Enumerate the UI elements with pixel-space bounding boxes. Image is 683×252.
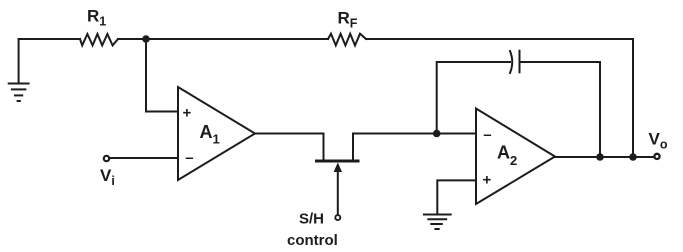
node A (junction dot after R1) — [142, 35, 150, 43]
transistor Q1 gate arrow — [334, 163, 342, 215]
terminal Vi — [104, 156, 109, 161]
wire node A to RF — [146, 38, 328, 40]
resistor RF — [328, 34, 366, 46]
resistor R1 — [80, 34, 118, 45]
svg-text:+: + — [483, 171, 492, 188]
wire RF to right corner — [366, 39, 633, 157]
svg-text:+: + — [183, 105, 192, 122]
wire ground to R1 — [19, 38, 80, 40]
op-amp U2 (A2) — [476, 109, 555, 205]
terminal Vo — [654, 154, 659, 159]
svg-text:–: – — [185, 149, 193, 166]
svg-text:control: control — [287, 232, 338, 249]
capacitor C1 — [510, 51, 520, 73]
wire Vi to A1 - input — [110, 157, 178, 159]
svg-text:S/H: S/H — [299, 210, 324, 227]
ground G1 (top-left) — [9, 39, 29, 101]
node C (cap feedback junction on output) — [596, 153, 604, 161]
op-amp U1 (A1) — [178, 87, 255, 180]
transistor Q1 channel bar — [317, 160, 359, 163]
label S/H control — [287, 210, 338, 249]
op-amp A2 triangle — [476, 109, 555, 205]
wire A2 output to Vo — [555, 156, 654, 158]
node B (junction dot at A2 inverting input) — [433, 130, 441, 138]
wire node A down to A1 + input — [146, 39, 178, 112]
node D (RF feedback junction on output) — [629, 153, 637, 161]
terminal S/H control — [335, 215, 340, 220]
ground G2 (A2 non-inverting input) — [424, 215, 451, 230]
svg-text:–: – — [483, 126, 491, 143]
wire node B to A2 - input — [437, 133, 476, 135]
wire R1 to node A — [118, 38, 146, 40]
wire node B up to capacitor — [437, 62, 510, 134]
wire A1 output to switch — [255, 134, 324, 160]
wire A2 + input to ground — [437, 180, 476, 214]
op-amp A1 triangle — [178, 87, 255, 180]
wire capacitor to output node — [520, 62, 601, 157]
transistor Q1 drain lead and wire to node B — [353, 134, 437, 160]
